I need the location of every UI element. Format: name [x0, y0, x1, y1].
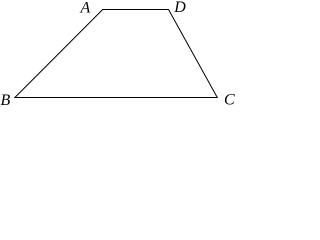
svg-text:A: A	[80, 0, 91, 16]
trapezoid ABCD	[15, 10, 217, 98]
svg-text:B: B	[1, 92, 11, 105]
svg-text:D: D	[173, 0, 186, 16]
svg-text:C: C	[224, 92, 235, 106]
